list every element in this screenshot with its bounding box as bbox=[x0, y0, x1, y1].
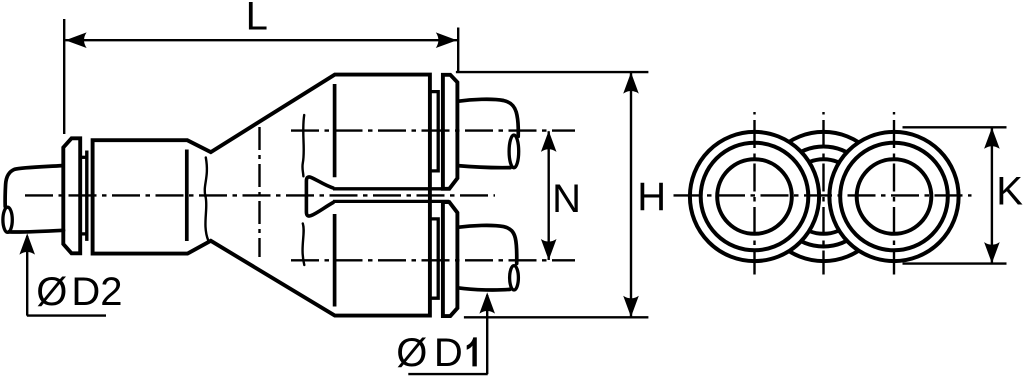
left tube top+left outline bbox=[5, 166, 62, 207]
D2 leader arrow bbox=[19, 233, 35, 254]
bottom branch washer ring bbox=[430, 219, 438, 298]
H extension line bottom bbox=[464, 316, 649, 318]
left circle vertical centerline bbox=[753, 112, 755, 275]
break line 1 lower bbox=[205, 197, 208, 241]
mask: right collet covers middle bbox=[828, 131, 960, 263]
break line 1 upper bbox=[205, 158, 207, 197]
right collet ring 2 bbox=[840, 143, 948, 251]
svg-text:K: K bbox=[996, 169, 1023, 213]
left tube break ellipse bbox=[3, 207, 12, 232]
mask: left collet covers middle bbox=[689, 131, 821, 263]
L arrow left bbox=[65, 32, 86, 48]
body outer silhouette bbox=[93, 75, 430, 316]
L dimension line bbox=[65, 39, 457, 41]
big body inner vertical line top bbox=[333, 84, 337, 177]
K dimension line bbox=[991, 128, 993, 263]
slot bottom wall bbox=[333, 200, 449, 203]
bottom tube break ellipse bbox=[510, 266, 519, 290]
bottom branch centerline bbox=[291, 259, 575, 261]
K extension line bottom bbox=[903, 262, 1007, 264]
right collet inner circle bbox=[857, 159, 932, 234]
N dimension line bbox=[548, 131, 550, 260]
bottom tube top edge bbox=[458, 225, 517, 263]
right circle vertical centerline bbox=[893, 112, 895, 275]
svg-text:L: L bbox=[246, 0, 268, 39]
N arrow bottom bbox=[541, 239, 557, 260]
main horizontal centerline bbox=[25, 194, 495, 196]
bottom tube bottom edge bbox=[458, 288, 510, 290]
bottom branch collet flange bbox=[443, 202, 458, 316]
big body inner vertical line bottom bbox=[333, 214, 337, 307]
svg-text:H: H bbox=[637, 175, 666, 219]
H dimension line bbox=[630, 73, 632, 317]
top tube break ellipse bbox=[509, 135, 519, 168]
H arrow bottom bbox=[623, 296, 639, 317]
D2 leader line bbox=[27, 236, 106, 316]
svg-text:Ø D2: Ø D2 bbox=[36, 270, 122, 314]
break line 2 upper bbox=[302, 115, 304, 176]
left washer ring bbox=[85, 151, 88, 241]
top tube top edge bbox=[458, 99, 519, 136]
left body inner vertical line bbox=[185, 150, 189, 242]
D1 leader line bbox=[408, 295, 487, 374]
left collet neck tick top bbox=[80, 156, 87, 159]
front view horizontal centerline bbox=[674, 194, 972, 196]
left tube bottom edge bbox=[9, 230, 64, 232]
svg-text:Ø D: Ø D bbox=[396, 331, 463, 375]
K arrow top bbox=[984, 128, 1000, 149]
break line 2 lower bbox=[303, 224, 305, 266]
L extension line right bbox=[457, 28, 459, 73]
left collet outer circle bbox=[690, 132, 819, 261]
middle circle vertical centerline bbox=[822, 112, 824, 275]
K arrow bottom bbox=[984, 242, 1000, 263]
H arrow top bbox=[623, 72, 639, 93]
right collet outer circle bbox=[829, 132, 958, 261]
vertical centerline in cone bbox=[258, 127, 260, 257]
L extension line left bbox=[63, 19, 65, 134]
middle collet outer circle (hidden behind side collets) bbox=[759, 132, 888, 261]
N arrow top bbox=[541, 131, 557, 152]
left collet neck tick bottom bbox=[80, 232, 87, 235]
svg-text:N: N bbox=[552, 177, 581, 221]
label D1 digit bbox=[467, 337, 477, 366]
left collet flange bbox=[63, 138, 80, 253]
top tube bottom edge bbox=[458, 166, 511, 168]
funnel (slot mouth) bbox=[306, 177, 334, 216]
top branch centerline bbox=[291, 129, 575, 131]
left collet inner circle bbox=[717, 159, 792, 234]
H extension line top bbox=[456, 71, 649, 73]
middle collet inner circle bbox=[786, 159, 861, 234]
middle collet ring 2 bbox=[774, 147, 874, 247]
D1 leader arrow bbox=[479, 292, 495, 313]
L arrow right bbox=[436, 32, 457, 48]
slot top wall bbox=[333, 187, 449, 190]
top branch collet flange bbox=[443, 75, 458, 189]
top branch washer ring bbox=[430, 92, 438, 171]
K extension line top bbox=[903, 126, 1007, 128]
left collet ring 2 bbox=[701, 143, 809, 251]
